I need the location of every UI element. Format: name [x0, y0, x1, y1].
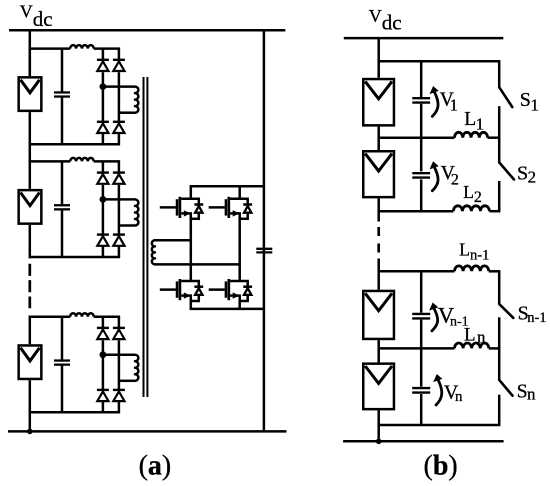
switch Sn-1 [498, 271, 501, 304]
diode D13 [97, 121, 109, 123]
wire right return (a) [263, 30, 266, 431]
svg-text:(b): (b) [424, 450, 458, 481]
inductor Lf1 [70, 45, 94, 48]
inductor L1 [455, 132, 488, 137]
svg-text:(a): (a) [139, 450, 172, 481]
diode D33 [97, 389, 109, 391]
wire string bus-to-PV1 [29, 30, 32, 76]
wire right leg mid [238, 219, 241, 281]
diode D22 [113, 171, 125, 173]
wire cell2 right leg upper [118, 161, 121, 172]
diode D12 [113, 59, 125, 61]
transformer primary winding W3 [135, 355, 138, 381]
diode D11 [97, 59, 109, 61]
node string bottom junction (b) [376, 439, 382, 445]
wire cell2 top right [94, 160, 120, 163]
diode D34 [113, 389, 125, 391]
wire cap leg mid a [420, 104, 423, 172]
wire cell1 bottom [29, 143, 120, 146]
wire PV2 top lead [29, 161, 32, 189]
transistor Q2 [209, 206, 225, 209]
wire bridge bottom rail [190, 308, 264, 311]
wire cell3 node to winding [103, 353, 135, 356]
voltage arrow Vn-1 [432, 307, 438, 331]
wire cell3 left leg mid [102, 340, 105, 390]
wire left leg mid [190, 219, 193, 281]
voltage arrow Vn [436, 379, 442, 405]
wire cap3 lower lead [61, 365, 64, 413]
inductor L2 [453, 206, 489, 211]
transformer core [143, 77, 145, 397]
wire string dashed break (a) [28, 264, 31, 309]
wire cell2 right leg mid [118, 185, 121, 235]
capacitor Cn (b) [412, 387, 430, 389]
wire PV3 top lead [29, 317, 32, 345]
wire branch 2 right [488, 136, 501, 139]
wire cap3 upper lead [61, 317, 64, 361]
wire string PV2 stub [377, 198, 380, 221]
capacitor Cin3 [54, 359, 70, 361]
wire string PVn-bottom [377, 410, 380, 441]
voltage arrow V1 [432, 91, 438, 117]
wire cell1 left diode leg upper [102, 49, 105, 60]
wire top bus Vdc (b) [344, 37, 504, 40]
wire PV1 top lead [29, 49, 32, 77]
wire cell1 top [29, 47, 70, 50]
node cell2 junction [100, 196, 107, 203]
transformer primary winding W1 [135, 87, 138, 113]
wire PV2 bottom lead [29, 225, 32, 257]
wire cell2 winding return [119, 224, 135, 227]
PV module PV2 (b) [363, 151, 394, 197]
wire branch n right [489, 347, 501, 350]
wire branch n left [379, 347, 455, 350]
capacitor C2 (b) [412, 172, 430, 174]
wire bottom bus (a) [8, 430, 287, 433]
wire cap1 upper lead [61, 49, 64, 93]
wire Q1 drain leg [190, 186, 193, 199]
wire cell1 node to winding [103, 85, 135, 88]
wire string to cell3 [29, 316, 32, 317]
wire string bus-PV1 (b) [377, 38, 380, 78]
diode D14 [113, 121, 125, 123]
diode D31 [97, 327, 109, 329]
wire string B2 stub [29, 257, 32, 258]
diode D23 [97, 233, 109, 235]
wire cell2 left diode leg upper [102, 161, 105, 172]
wire string to PVn-1 [377, 259, 380, 290]
wire cell2 node to winding [103, 198, 135, 201]
wire branch n-1 left [379, 270, 455, 273]
wire cell2 left leg lower [102, 246, 105, 257]
capacitor Cin1 [54, 91, 70, 93]
wire cap leg top a [420, 61, 423, 97]
wire secondary top lead [155, 239, 191, 242]
switch S1 [498, 61, 501, 87]
wire bottom bus (b) [343, 440, 504, 443]
wire PV1 bottom lead [29, 112, 32, 144]
PV module PVn-1 (b) [363, 291, 394, 339]
wire cell2 left leg mid [102, 185, 105, 235]
wire cell1 top right [94, 47, 120, 50]
PV module PVn (b) [363, 364, 394, 410]
wire string dashed break (b) [377, 227, 380, 253]
transistor Q3 [160, 288, 176, 291]
transistor Q1 [160, 206, 176, 209]
wire cap2 upper lead [61, 161, 64, 205]
wire string PVn-1 - PVn [377, 340, 380, 362]
wire top bus Vdc (a) [9, 29, 285, 32]
wire cap leg bot b [420, 394, 423, 425]
wire cell1 left leg lower [102, 133, 105, 144]
wire Q2 drain leg [238, 186, 241, 199]
diode D21 [97, 171, 109, 173]
PV module PV2 (a) [19, 190, 42, 224]
wire cell3 left leg lower [102, 402, 105, 413]
wire cap2 lower lead [61, 210, 64, 258]
transformer secondary winding [152, 240, 155, 264]
svg-text:Sn: Sn [517, 382, 536, 404]
inductor Ln [455, 343, 489, 348]
wire cell3 top right [94, 315, 120, 318]
wire PV3 bottom lead [29, 380, 32, 412]
inductor Lf3 [70, 313, 94, 316]
wire cell2 bottom [29, 256, 120, 259]
wire cell1 left leg mid [102, 72, 105, 122]
inductor Lf2 [70, 158, 94, 162]
node string bottom junction (a) [27, 429, 33, 435]
wire Q4 source leg [238, 301, 241, 309]
wire cap leg top b [420, 271, 423, 313]
wire cell1 winding return [119, 111, 135, 114]
transistor Q4 [209, 288, 225, 291]
wire cell3 right leg upper [118, 317, 121, 328]
wire string PV1-PV2 [377, 127, 380, 150]
switch Sn [498, 348, 501, 380]
wire cell2 right leg lower [118, 246, 121, 257]
capacitor Cin2 [54, 204, 70, 206]
diode D24 [113, 233, 125, 235]
node cell1 junction [100, 83, 107, 90]
wire cap leg bot a [420, 179, 423, 211]
wire secondary bottom lead [155, 263, 240, 266]
wire branch n-1 right [489, 270, 501, 273]
PV module PV1 (a) [19, 77, 42, 111]
capacitor C1 (b) [412, 97, 430, 99]
wire cell1 right leg mid [118, 72, 121, 122]
wire Q3 source leg [190, 301, 193, 309]
wire cell3 top [29, 315, 70, 318]
wire cell1 right leg lower [118, 133, 121, 144]
inductor Ln-1 [455, 266, 489, 271]
wire cell3 right leg lower [118, 402, 121, 413]
diode D32 [113, 327, 125, 329]
PV module PV3 (a) [19, 345, 42, 379]
capacitor Cout (a) [256, 248, 272, 250]
wire cell2 top [29, 160, 70, 163]
voltage arrow V2 [432, 166, 438, 191]
wire branch 3 left [379, 210, 454, 213]
transformer primary winding W2 [135, 199, 138, 225]
wire string B3 to bottom bus [29, 412, 32, 431]
wire cell3 right leg mid [118, 340, 121, 390]
wire branch 2 left [379, 136, 455, 139]
wire string B1-T2 [29, 144, 32, 161]
wire branch 1 (top) [379, 60, 501, 63]
PV module PV1 (b) [363, 79, 394, 125]
wire bridge top rail [190, 185, 264, 188]
wire cap leg mid b [420, 320, 423, 387]
wire branch 3 right [489, 210, 500, 213]
node cell3 junction [100, 351, 107, 358]
wire cell3 left diode leg upper [102, 317, 105, 328]
wire cell3 winding return [119, 380, 135, 383]
wire cap1 lower lead [61, 97, 64, 145]
wire cell3 bottom [29, 411, 120, 414]
switch S2 [498, 138, 501, 163]
wire branch bottom (b) [379, 424, 501, 427]
wire cell1 right leg upper [118, 49, 121, 60]
capacitor Cn-1 (b) [412, 313, 430, 315]
